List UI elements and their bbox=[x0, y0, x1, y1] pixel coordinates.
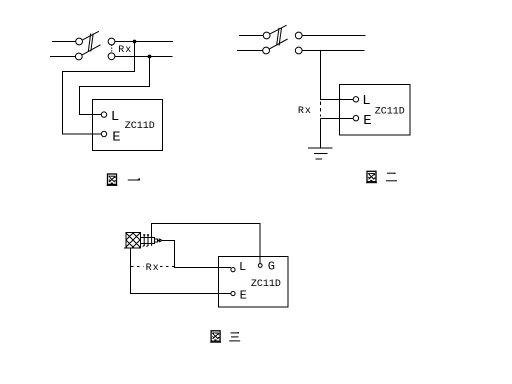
svg-text:L: L bbox=[111, 109, 119, 125]
svg-text:ZC11D: ZC11D bbox=[251, 279, 281, 290]
terminal E circle F1 bbox=[101, 131, 106, 136]
bushing neck bbox=[155, 239, 158, 242]
wire F3 sheath to E terminal bbox=[131, 248, 232, 294]
wire F1 top-left feed bbox=[52, 41, 76, 43]
caption glyph ER (two) F2 bbox=[386, 173, 397, 181]
label ZC11D F2 bbox=[375, 106, 405, 117]
svg-text:G: G bbox=[268, 260, 275, 274]
caption glyph TU (figure) F2 bbox=[366, 171, 377, 183]
label Rx F3 bbox=[146, 263, 160, 274]
caption glyph YI (one) F1 bbox=[128, 178, 140, 180]
megger U1 box ZC11D bbox=[93, 100, 163, 151]
junction dot F1 bottom bbox=[148, 55, 152, 59]
wire F1 bottom bus bbox=[115, 56, 173, 58]
svg-text:E: E bbox=[112, 129, 120, 145]
svg-text:ZC11D: ZC11D bbox=[375, 106, 405, 117]
conductor pin with tip bbox=[158, 239, 163, 242]
switch S1 contact bottom bbox=[75, 53, 82, 60]
label E F3 bbox=[240, 288, 247, 302]
bushing body bbox=[141, 238, 155, 244]
node Rx terminal bottom F1 bbox=[108, 53, 115, 60]
wire F2 drop to L terminal bbox=[321, 51, 354, 100]
megger U2 box ZC11D bbox=[340, 85, 411, 136]
wire F2 top-left feed bbox=[239, 35, 263, 37]
terminal L circle F2 bbox=[353, 97, 358, 102]
label E F2 bbox=[363, 113, 371, 129]
wire F1 top bus to E terminal bbox=[63, 42, 135, 135]
label L F2 bbox=[362, 93, 370, 109]
bushing ribs bbox=[144, 235, 151, 246]
label Rx F1 bbox=[118, 45, 132, 56]
svg-text:L: L bbox=[239, 260, 246, 274]
wire F3 guard loop from bushing top to G bbox=[152, 224, 261, 265]
label G F3 bbox=[268, 260, 275, 274]
label ZC11D F3 bbox=[251, 279, 281, 290]
caption glyph SAN (three) F3 bbox=[229, 332, 240, 341]
svg-text:E: E bbox=[363, 113, 371, 129]
cable sheath hatched block bbox=[124, 233, 141, 249]
svg-text:ZC11D: ZC11D bbox=[125, 121, 155, 132]
terminal L circle F3 bbox=[231, 268, 235, 272]
svg-text:L: L bbox=[362, 93, 370, 109]
wire F3 pin to L terminal bbox=[162, 240, 231, 267]
label L F1 bbox=[111, 109, 119, 125]
wire F2 to E terminal bbox=[321, 118, 354, 120]
switch S1 blade top bbox=[82, 31, 99, 40]
terminal E circle F2 bbox=[353, 116, 358, 121]
node Rx terminal top F1 bbox=[108, 38, 115, 45]
wire F1 bottom bus to L terminal bbox=[80, 57, 150, 115]
label ZC11D F1 bbox=[125, 121, 155, 132]
switch S2 blade bottom bbox=[269, 39, 288, 49]
label L F3 bbox=[239, 260, 246, 274]
bushing rib ticks bbox=[143, 245, 149, 247]
node terminal top F2 bbox=[295, 32, 302, 39]
switch S2 linkage bars bbox=[277, 28, 279, 46]
resistor Rx dashed gap F2 bbox=[320, 102, 322, 117]
resistor Rx dotted gap F1 bbox=[111, 45, 113, 54]
junction dot F1 top bbox=[133, 40, 137, 44]
switch S2 contact top bbox=[263, 32, 270, 39]
wire F1 top bus bbox=[115, 41, 173, 43]
wire F2 ground stem bbox=[320, 119, 322, 149]
svg-text:Rx: Rx bbox=[118, 45, 132, 56]
label Rx F2 bbox=[298, 106, 312, 117]
megger U3 box ZC11D bbox=[219, 257, 289, 308]
switch S2 blade top bbox=[270, 25, 287, 34]
ground symbol F2 bbox=[308, 148, 333, 159]
caption glyph TU (figure) F1 bbox=[107, 174, 118, 186]
switch S1 blade bottom bbox=[82, 45, 101, 55]
switch S2 contact bottom bbox=[263, 47, 270, 54]
wire F1 bottom-left feed bbox=[50, 56, 75, 58]
wire F2 bottom bus bbox=[302, 50, 364, 52]
terminal G circle F3 bbox=[258, 264, 262, 268]
terminal E circle F3 bbox=[231, 291, 235, 295]
resistor Rx dashed line left F3 bbox=[131, 266, 144, 268]
switch S1 contact top bbox=[76, 38, 83, 45]
terminal L circle F1 bbox=[101, 112, 106, 117]
node terminal bottom F2 bbox=[295, 47, 302, 54]
switch S1 linkage bars bbox=[88, 34, 90, 52]
wire F2 top bus bbox=[302, 35, 365, 37]
resistor Rx dashed line right F3 bbox=[160, 266, 175, 268]
svg-text:E: E bbox=[240, 288, 247, 302]
label E F1 bbox=[112, 129, 120, 145]
caption glyph TU (figure) F3 bbox=[210, 331, 221, 343]
wire F2 bottom-left feed bbox=[237, 50, 263, 52]
svg-text:Rx: Rx bbox=[298, 106, 312, 117]
svg-text:Rx: Rx bbox=[146, 263, 160, 274]
